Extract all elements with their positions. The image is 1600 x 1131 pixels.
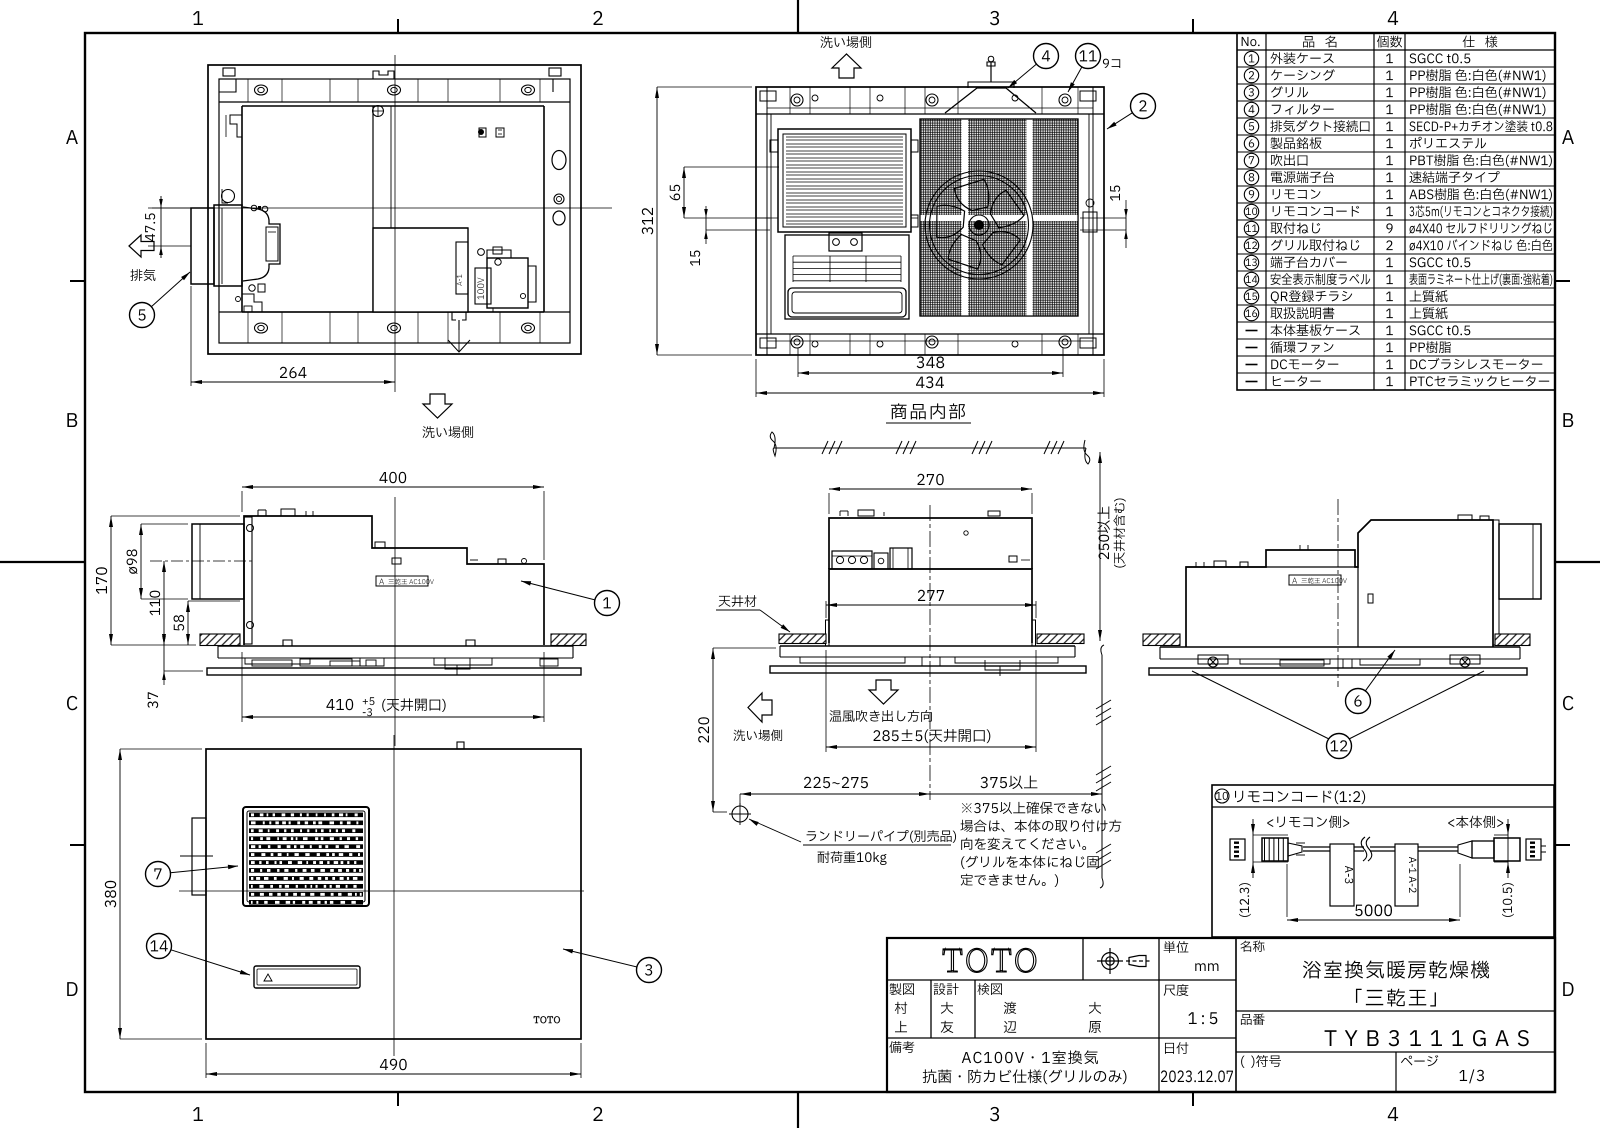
hanger bolt [990,62,992,82]
dim 12.3 [1252,835,1254,862]
zone tick left C-D [70,844,85,846]
terminal cover plate [874,553,888,569]
remote-side plug [1262,838,1288,861]
right side grille section [1160,646,1520,648]
filter mesh area [920,119,1078,316]
table row 5 排気ダクト接続口 [1244,119,1258,133]
third angle projection symbol [1097,948,1152,974]
right grille screws [1198,655,1480,667]
screw holes top band [255,85,268,95]
top band rib marks [247,79,249,102]
table row 6 製品銘板 [1244,136,1258,150]
ceiling hatch far left [1143,634,1180,646]
callout 7 [170,866,238,873]
TOTO logo [943,948,1036,972]
callout 12 [1327,734,1352,759]
front view body lower [829,569,1032,643]
heater unit below louvre [785,235,909,319]
body-side plug [1458,841,1472,858]
right grille inner details [1240,659,1420,668]
top center bracket [373,71,394,79]
crosshair screw top [373,106,384,117]
dim 170 [110,516,112,645]
heater outlet louvre slats [249,813,363,905]
dim diameter 98 [140,524,142,599]
drafting fields [890,983,914,995]
dim 250 or more [1099,452,1101,641]
table row 4 フィルター [1244,102,1258,116]
hanger bracket [945,88,1036,113]
TOTO small logo bottom view [534,1016,560,1023]
grille bottom panel [207,668,581,675]
fan scroll box [373,228,468,312]
right side grille bottom panel [1149,668,1527,675]
wash side arrow top [832,54,861,78]
remote cord detail title [1215,789,1229,803]
zone tick right C-D [1555,844,1570,846]
table row 12 グリル取付ねじ [1244,238,1258,252]
ceiling hatch right front [1037,634,1084,644]
grille bottom view outline [206,749,581,1039]
dim 375 or more [930,793,1102,795]
exhaust duct connection [191,208,214,284]
dim 348 [798,372,1063,374]
casing mid line stubs [756,217,778,219]
fan blades [937,179,1024,269]
laundry pipe mark [732,806,748,822]
dim 47.5 [148,207,191,209]
safety label [254,966,360,988]
exhaust duct side [192,524,244,599]
grille vertical centerline [393,735,395,1056]
dim 5000 [1287,919,1460,921]
interior rib lines top band [789,87,791,114]
dim 65 [683,167,685,218]
duct lower screws [249,285,255,291]
callout 5 [151,272,190,307]
table row 13 端子台カバー [1244,255,1258,269]
terminal screws [478,249,485,256]
ceiling hatch far right [1495,634,1530,646]
plan view vertical centerline [394,55,396,392]
grille cross-section [218,645,573,647]
right side duct [1493,520,1499,645]
table row 14 安全表示制度ラベル [1244,272,1258,286]
body-side connector housing [1526,839,1541,860]
interior view inner frame [756,113,1104,115]
dim 277 [826,604,1036,606]
unit field [1164,941,1189,953]
right wall oval knockouts [552,151,566,170]
dim 225-275 [740,793,930,795]
remote-side connector housing [1230,839,1245,860]
grille latch details right [434,658,558,675]
dim 285 ceiling opening [825,650,827,752]
left tab bottom view [192,818,206,895]
zone tick top 3-4 [1192,19,1194,33]
dim 15 left [705,218,707,230]
wash side arrow front view [748,693,772,722]
remote cord detail box [1212,785,1554,937]
left wall clamp [222,190,235,203]
rating label side view [376,576,428,586]
side view centerline [394,497,396,746]
dim 312 [656,87,658,355]
dim 434 [756,392,1104,394]
top plan view flange bands [219,101,570,103]
casing band inner lines [767,107,1093,109]
bottom center clip [452,312,466,330]
laundry pipe note [749,819,801,842]
zone center mark right [1555,561,1600,563]
page field [1241,1055,1281,1068]
front grille bottom panel [770,666,1086,673]
body side label [1448,816,1503,828]
duct centerline [150,560,254,562]
zone center mark left [0,561,85,563]
callout 4 [1008,64,1036,88]
zone labels top [193,11,203,25]
corner mount tabs [219,79,236,92]
table row 3 グリル [1244,85,1258,99]
side view body outline [244,516,544,645]
left module partition [372,106,374,312]
interior rib lines bottom band [789,334,791,355]
bottom band rib marks [247,312,249,343]
duct small screws [251,205,257,211]
table row 8 電源端子台 [1244,170,1258,184]
circulation fan behind filter [925,171,1033,279]
grille top tab [457,742,464,749]
parts table header [1242,37,1260,46]
dim 37 [163,645,165,671]
zone center mark bottom [797,1092,799,1128]
top plan view outer case [208,65,581,354]
grille horizontal centerline [179,890,584,892]
heater body ribs [793,256,901,282]
part number field [1241,1014,1265,1025]
terminal label strip [456,242,468,294]
scale field [1164,984,1189,996]
front view top details [839,511,841,516]
dim 220 [712,648,714,812]
wall line right [1101,645,1104,655]
terminal box [487,258,528,308]
front view body upper [829,518,1032,569]
front grille section [780,645,1075,647]
remote side label [1267,816,1349,828]
duct bellmouth [243,207,280,281]
warm air direction arrow [869,680,898,704]
zone tick top 1-2 [397,19,399,33]
board case [890,548,912,569]
right side small mark [1368,594,1373,603]
wash side label top [821,36,872,48]
heater outlet rounded box [788,288,906,317]
louvre side hooks [770,140,778,152]
dim 10.5 [1507,835,1509,862]
ceiling hatch left front [779,634,826,644]
zone labels bottom [193,1107,203,1121]
tag A-1 A-2 [1395,844,1418,906]
name field [1241,941,1265,952]
heater connector box [829,233,862,251]
zone labels right [1562,130,1574,144]
interior view casing outline [756,87,1104,355]
screw holes bottom band [255,323,268,333]
interior view title [891,403,965,419]
ceiling section left of body [200,634,240,646]
callout 1 [521,581,595,600]
table row - DCモーター [1246,364,1258,366]
heater outlet louvre frame [243,807,369,906]
callout 11 quantity [1103,59,1120,68]
table row - 本体基板ケース [1246,330,1258,332]
dim 58 [187,601,189,645]
dim 410 ceiling opening [241,652,243,722]
table row - ヒーター [1246,381,1258,383]
front grille inner details [800,657,1058,676]
zone tick left A-B [70,280,85,282]
date field [1165,1042,1188,1054]
table row 10 リモコンコード [1244,204,1258,218]
cord line with break [1303,846,1364,848]
callout 3 [563,949,637,967]
tag A-3 [1330,844,1354,906]
side view top details [257,510,259,516]
bottom left latch details [242,294,262,312]
louvre outlet frame [778,129,911,232]
front view centerline [929,505,931,800]
AC100V label [475,268,491,304]
ceiling break line below interior view [770,432,776,456]
table row 11 取付ねじ [1244,221,1258,235]
installation note [962,802,1106,814]
table row 1 外装ケース [1244,51,1258,65]
remarks field [889,1041,914,1053]
exhaust label [130,269,155,281]
zone tick right A-B [1555,280,1570,282]
table row 2 ケーシング [1244,68,1258,82]
zone tick bottom 1-2 [397,1092,399,1106]
zone center mark top [797,0,799,33]
table row - 循環ファン [1246,347,1258,349]
right body marks [1009,556,1017,562]
table row 15 QR登録チラシ [1244,289,1258,303]
wash side label front view [733,729,782,741]
dim 264 [191,381,395,383]
zone tick bottom 3-4 [1192,1092,1194,1106]
parts table [1237,33,1555,390]
ceiling material label [719,595,757,607]
bottom right part outline [528,266,536,302]
dim 270 [829,488,1032,490]
callout 2 [1107,113,1133,129]
corner tabs interior [760,91,776,101]
filter panel gaps [920,119,1078,316]
dim 380 [119,749,121,1039]
right edge latch [1083,212,1097,232]
callout 11 [1068,67,1082,92]
wash side label bottom [423,426,474,438]
dim 110 [163,561,165,645]
mount screws interior [791,94,803,106]
right side view body [1186,520,1493,647]
callout 6 [1365,650,1395,691]
side view duct mounting plate [244,517,252,644]
table row 16 取扱説明書 [1244,306,1258,320]
small parts top right [479,128,486,137]
grille screw bosses [283,640,292,646]
louvre outlet slats [786,137,903,224]
dim 15 right [1125,218,1127,230]
title block [887,938,1555,1092]
ceiling section right of body [551,634,586,646]
zone labels left [66,130,78,144]
right side rating label [1289,575,1341,585]
plan view horizontal centerline [152,207,612,209]
right side top details [1195,562,1197,567]
power terminal block [832,551,872,569]
interior detail lines left module [230,115,242,137]
wash side arrow bottom [423,394,452,418]
grille latch details left [245,658,384,666]
exhaust arrow [129,235,154,257]
side body screws [247,525,254,532]
callout 14 [171,950,250,975]
table row 9 リモコン [1244,187,1258,201]
right side centerline [1337,499,1339,687]
table row 7 吹出口 [1244,153,1258,167]
dim 400 [242,486,544,488]
dim 490 [206,1073,581,1075]
title block divider [1235,938,1237,1092]
warm air direction label [830,710,932,722]
